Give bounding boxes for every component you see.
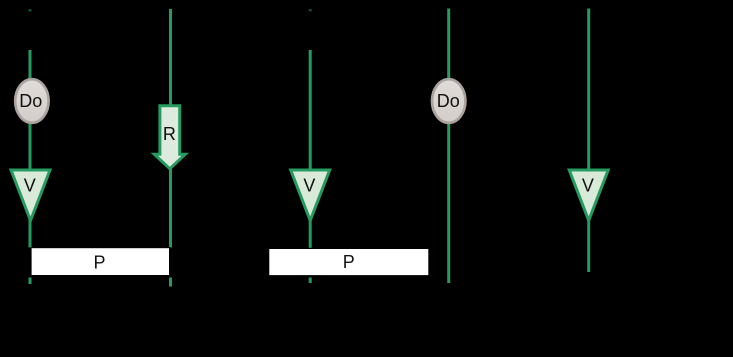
oval Do (lifeline 4) [432,79,465,123]
box P (spanning lifelines 1-2) [31,248,170,276]
wire lifeline-1 bottom stub [29,278,32,285]
triangle V (lifeline 3) [291,170,330,221]
wire lifeline-3 main segment [309,50,312,248]
box P (on lifeline 3) [269,248,429,275]
svg-text:P: P [93,252,105,272]
triangle V (lifeline 1) [11,170,50,221]
oval Do (lifeline 1) [15,79,48,123]
wire lifeline-2 main segment [169,9,172,248]
wire lifeline-3 top stub [309,9,312,11]
svg-text:Do: Do [19,91,42,111]
svg-text:Do: Do [437,91,460,111]
wire lifeline-3 bottom stub [309,278,312,284]
svg-text:R: R [163,124,176,144]
wire lifeline-5 full [587,9,590,273]
wire lifeline-1 main segment [29,50,32,248]
svg-text:V: V [24,175,36,195]
wire lifeline-4 full [447,9,450,284]
svg-text:V: V [582,175,594,195]
wire lifeline-2 bottom stub [169,278,172,287]
wire lifeline-1 top stub [29,9,32,11]
arrow R (lifeline 2) [151,104,190,171]
svg-text:V: V [303,175,315,195]
triangle V (lifeline 5) [569,170,608,221]
svg-text:P: P [343,252,355,272]
